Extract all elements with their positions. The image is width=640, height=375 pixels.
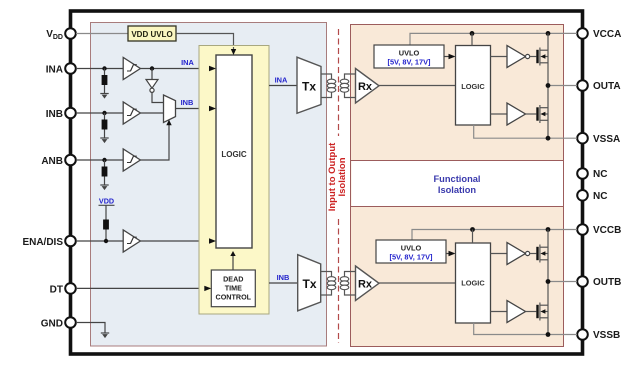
node ANB pulldown junction xyxy=(102,158,106,162)
wire LOGIC B to buffer B1 xyxy=(491,253,508,255)
node OUTB xyxy=(546,279,551,284)
transistor NMOS B (pull-down) xyxy=(536,303,548,321)
pin NC 1 xyxy=(577,168,607,180)
pin INB xyxy=(46,108,76,120)
VDD UVLO down arrow into LOGIC xyxy=(231,47,236,55)
ENA arrow xyxy=(209,238,216,243)
Rx A xyxy=(356,69,380,104)
wire buffer A2 to NMOS gate xyxy=(526,113,537,115)
wire inverter to mux xyxy=(152,92,164,102)
pin ENA/DIS xyxy=(22,236,75,248)
wire INB pin to schmitt xyxy=(76,112,123,114)
wire ENA/DIS pin to schmitt xyxy=(76,240,123,242)
output-side region (right, tan) xyxy=(351,25,564,347)
schmitt buffer INA xyxy=(123,57,140,79)
svg-text:DEAD: DEAD xyxy=(223,274,243,283)
buffer A1 (inverting, high side) xyxy=(507,46,530,68)
wire Rx A to LOGIC A xyxy=(379,85,456,87)
svg-text:DT: DT xyxy=(50,285,63,296)
svg-text:NC: NC xyxy=(593,191,607,202)
svg-text:VDD UVLO: VDD UVLO xyxy=(131,30,172,39)
UVLO block A xyxy=(374,45,444,68)
svg-text:OUTB: OUTB xyxy=(593,277,621,288)
wire mux output to LOGIC xyxy=(176,106,217,111)
pin VSSB xyxy=(577,329,620,341)
transistor PMOS B (pull-up) xyxy=(536,245,548,263)
pin OUTB xyxy=(577,276,621,288)
Tx B xyxy=(298,255,321,311)
wire DT pin to dead time control xyxy=(76,286,211,291)
node ENA/DIS pullup junction xyxy=(104,239,108,243)
pin DT xyxy=(50,283,76,295)
isolation transformer A xyxy=(321,74,356,98)
pin VCCB xyxy=(577,224,621,236)
pin ANB xyxy=(41,155,75,167)
svg-text:VCCB: VCCB xyxy=(593,225,621,236)
pin VDD xyxy=(46,28,76,41)
wire UVLO A to LOGIC A (arrow) xyxy=(444,54,456,59)
Tx A xyxy=(297,57,321,113)
VDD rail symbol above ENA/DIS pullup xyxy=(99,197,115,220)
wire LOGIC A bottom to VSSA rail xyxy=(474,125,577,138)
wire LOGIC out INB to Tx B xyxy=(269,282,298,284)
wire GND pin to ground xyxy=(76,323,105,334)
svg-text:INB: INB xyxy=(277,273,290,282)
resistor INA pulldown xyxy=(102,69,108,94)
pin INA xyxy=(46,63,76,75)
svg-text:INB: INB xyxy=(181,98,194,107)
isolation barrier dashed line xyxy=(338,29,340,343)
pin OUTA xyxy=(577,80,620,92)
svg-text:ANB: ANB xyxy=(41,156,63,167)
wire UVLO B to LOGIC B (arrow) xyxy=(446,251,456,256)
node on VCCA rail above LOGIC A xyxy=(470,31,475,36)
svg-text:[5V, 8V, 17V]: [5V, 8V, 17V] xyxy=(389,253,433,262)
wire VDD pin to VDD UVLO box xyxy=(76,33,128,35)
svg-text:LOGIC: LOGIC xyxy=(221,150,247,159)
svg-text:OUTA: OUTA xyxy=(593,81,621,92)
wire buffer B1 to PMOS gate xyxy=(530,253,537,255)
svg-text:VCCA: VCCA xyxy=(593,29,621,40)
svg-text:Functional: Functional xyxy=(434,174,481,184)
svg-text:GND: GND xyxy=(41,319,63,330)
wire INA pin to schmitt xyxy=(76,68,123,70)
label: Input to Output Isolation (rotated) xyxy=(327,142,348,211)
wire OUTB node to pin xyxy=(548,281,577,283)
svg-text:Isolation: Isolation xyxy=(438,185,477,195)
node INB pulldown junction xyxy=(102,111,106,115)
schmitt buffer ANB xyxy=(123,149,140,171)
svg-text:LOGIC: LOGIC xyxy=(461,279,485,288)
buffer A2 (high current, low side) xyxy=(507,103,526,125)
LOGIC block (yellow surround) xyxy=(199,46,269,315)
svg-text:INA: INA xyxy=(46,65,63,76)
ground below ANB resistor xyxy=(100,185,108,190)
node on VCCB rail above LOGIC B xyxy=(470,227,475,232)
Rx B xyxy=(356,266,380,301)
inverter (INA to mux) xyxy=(146,80,158,93)
svg-text:VDD: VDD xyxy=(99,197,114,206)
svg-text:UVLO: UVLO xyxy=(401,244,422,253)
LOGIC A block xyxy=(456,46,491,126)
wire schmitt ANB up to mux select (arrow) xyxy=(140,120,171,160)
ground below INA resistor xyxy=(100,94,108,99)
pin VSSA xyxy=(577,133,620,145)
node on VCCB rail above driver B xyxy=(546,227,551,232)
svg-text:VSSA: VSSA xyxy=(593,134,620,145)
wire OUTA node to pin xyxy=(548,85,577,87)
VCCA rail wire xyxy=(410,33,577,45)
ground at GND pin xyxy=(101,333,109,338)
wire INA node down to inverter xyxy=(151,69,153,80)
svg-text:Tx: Tx xyxy=(302,80,316,94)
isolation transformer B xyxy=(321,272,356,296)
svg-text:VSSB: VSSB xyxy=(593,330,620,341)
functional isolation white band xyxy=(351,161,564,207)
svg-text:Tx: Tx xyxy=(302,277,316,291)
svg-text:CONTROL: CONTROL xyxy=(216,292,252,301)
driver B output rail (vertical) xyxy=(547,230,549,335)
buffer B2 (high current, low side) xyxy=(507,301,526,323)
pin GND xyxy=(41,317,76,329)
resistor INB pulldown xyxy=(102,113,108,138)
node INA pulldown junction xyxy=(102,66,106,70)
svg-text:INA: INA xyxy=(275,76,288,85)
pin VCCA xyxy=(577,28,621,40)
label: Functional Isolation xyxy=(434,174,481,195)
LOGIC block core xyxy=(216,55,252,248)
schmitt buffer ENA/DIS xyxy=(123,230,140,252)
VDD UVLO block xyxy=(128,26,176,41)
mux xyxy=(164,95,176,123)
LOGIC B block xyxy=(456,243,491,323)
wire LOGIC A to buffer A1 xyxy=(491,56,508,58)
resistor ENA/DIS pullup xyxy=(103,220,109,242)
svg-text:Isolation: Isolation xyxy=(337,157,348,196)
wire schmitt ENA/DIS to LOGIC xyxy=(140,238,216,243)
buffer B1 (inverting, high side) xyxy=(507,243,530,265)
svg-text:INA: INA xyxy=(181,58,194,67)
transistor PMOS A (pull-up) xyxy=(536,48,548,66)
wire VDD UVLO to LOGIC (down arrow) xyxy=(176,34,236,56)
svg-text:UVLO: UVLO xyxy=(399,49,420,58)
ground below INB resistor xyxy=(100,138,108,143)
svg-text:INB: INB xyxy=(46,109,63,120)
wire LOGIC B bottom to VSSB rail xyxy=(474,323,577,335)
wire buffer A1 to PMOS gate xyxy=(530,56,537,58)
wire LOGIC B to buffer B2 xyxy=(491,311,508,313)
driver A output rail (vertical) xyxy=(547,33,549,138)
schmitt buffer INB xyxy=(123,102,140,124)
node on VSSB rail xyxy=(546,332,551,337)
transistor NMOS A (pull-down) xyxy=(536,105,548,123)
node on VSSA rail xyxy=(546,136,551,141)
wire schmitt INA to LOGIC xyxy=(140,66,216,71)
wire LOGIC B top to VCCB rail xyxy=(472,230,474,244)
svg-text:LOGIC: LOGIC xyxy=(461,82,485,91)
wire LOGIC A top to VCCA rail xyxy=(471,33,473,45)
wire LOGIC out INA to Tx A xyxy=(269,85,297,87)
node on VCCA rail above driver A xyxy=(546,31,551,36)
IC outer package boundary xyxy=(71,11,583,354)
node OUTA xyxy=(546,83,551,88)
wire LOGIC A to buffer A2 xyxy=(491,113,508,115)
wire ANB pin to schmitt xyxy=(76,159,123,161)
svg-text:ENA/DIS: ENA/DIS xyxy=(22,237,63,248)
svg-text:Rx: Rx xyxy=(358,279,373,291)
pin NC 2 xyxy=(577,190,607,202)
svg-text:VDD: VDD xyxy=(46,29,63,41)
svg-text:Rx: Rx xyxy=(358,81,373,93)
node INA after schmitt xyxy=(150,66,154,70)
svg-text:[5V, 8V, 17V]: [5V, 8V, 17V] xyxy=(387,58,431,67)
svg-text:NC: NC xyxy=(593,169,607,180)
VCCB rail wire xyxy=(412,230,577,241)
wire Rx B to LOGIC B xyxy=(379,282,456,284)
redraw arrowheads over yellow: INA arrow xyxy=(209,66,216,71)
wire buffer B2 to NMOS gate xyxy=(526,311,537,313)
input-side region (left, pale blue) xyxy=(91,23,327,347)
DEAD TIME CONTROL block xyxy=(211,270,255,307)
wire schmitt INB to mux xyxy=(140,112,163,114)
resistor ANB pulldown xyxy=(102,160,108,185)
wire DT arrow into dead time control xyxy=(204,286,211,291)
wire dead time control up to LOGIC xyxy=(230,251,235,270)
UVLO block B xyxy=(376,240,446,263)
INB arrow xyxy=(209,106,216,111)
